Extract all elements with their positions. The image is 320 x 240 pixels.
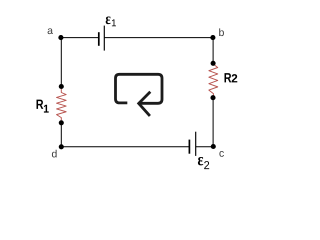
label R2 letter R xyxy=(225,73,232,82)
node b label xyxy=(219,28,224,36)
battery E1 long plate (positive) xyxy=(103,26,105,51)
label R2 digit 2 xyxy=(232,74,238,82)
node d label xyxy=(52,150,57,158)
resistor R2 zigzag xyxy=(209,64,218,96)
node d junction dot xyxy=(59,144,64,149)
node a junction dot xyxy=(58,35,63,40)
wire: R2 bottom to node c (right lower segment) xyxy=(212,98,214,147)
node c label xyxy=(219,151,224,157)
wire: node a to battery E1 (top-left segment) xyxy=(61,37,99,39)
junction dot R1 top terminal xyxy=(59,84,64,89)
junction dot R1 bottom terminal xyxy=(59,120,64,125)
label R1 subscript 1 xyxy=(44,105,49,113)
node c junction dot xyxy=(211,144,216,149)
label epsilon_1 xyxy=(106,16,111,24)
battery E1 short plate (negative) xyxy=(98,32,100,46)
wire: battery E2 to node c (bottom-right segment) xyxy=(196,146,214,148)
loop direction arrow body (rounded rectangle, open at bottom-left) xyxy=(116,74,163,103)
battery E2 short plate (negative) xyxy=(188,140,190,154)
junction dot R2 bottom terminal xyxy=(210,95,215,100)
wire: battery E1 to node b (top-right segment) xyxy=(104,37,213,39)
resistor R1 zigzag xyxy=(57,89,67,120)
battery E2 long plate (positive) xyxy=(195,132,197,156)
wire: node a down to R1 top (left upper segment) xyxy=(60,38,62,87)
node a label xyxy=(48,28,53,34)
label R1 letter R xyxy=(37,100,44,109)
loop direction arrow head xyxy=(139,92,151,116)
wire: node d to battery E2 (bottom-left segment) xyxy=(61,146,189,148)
node b junction dot xyxy=(210,35,215,40)
wire: R1 bottom to node d (left lower segment) xyxy=(60,123,62,147)
label epsilon_2 subscript 2 xyxy=(204,161,209,169)
junction dot R2 top terminal xyxy=(211,61,216,66)
wire: node b down to R2 top (right upper segment) xyxy=(212,38,214,64)
label epsilon_1 subscript 1 xyxy=(112,19,116,26)
label epsilon_2 xyxy=(198,157,203,165)
